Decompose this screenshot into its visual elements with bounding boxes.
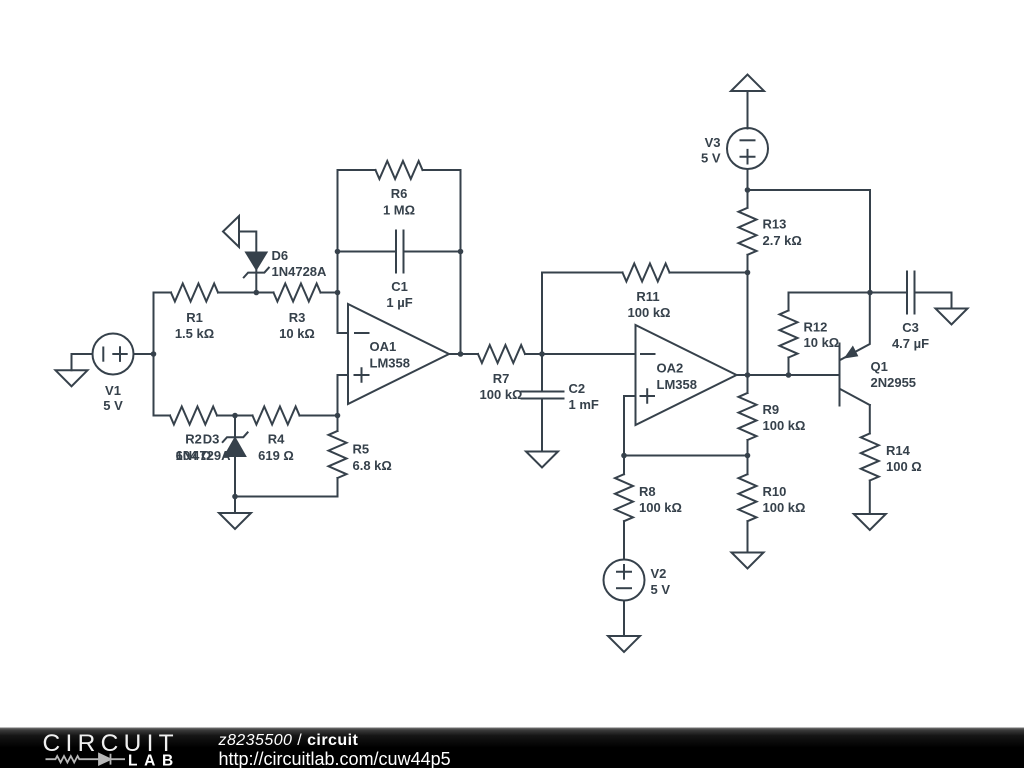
svg-text:Q1: Q1 [871, 359, 888, 374]
wire right rail R13 to OA2 output [747, 273, 749, 376]
node OA1 inverting input junction [335, 290, 341, 296]
capacitor C2 1 mF [522, 354, 599, 452]
svg-text:V1: V1 [105, 383, 121, 398]
ground (below R10) [732, 553, 764, 569]
svg-text:100 kΩ: 100 kΩ [628, 305, 671, 320]
svg-text:2N2955: 2N2955 [871, 375, 917, 390]
svg-text:C1: C1 [391, 279, 408, 294]
svg-text:R5: R5 [353, 442, 370, 457]
wire OA1 feedback right rail [460, 170, 462, 354]
svg-text:C2: C2 [569, 381, 586, 396]
svg-text:V3: V3 [705, 135, 721, 150]
svg-text:6.8 kΩ: 6.8 kΩ [353, 458, 392, 473]
transistor Q1 2N2955 [840, 293, 917, 406]
svg-text:100 kΩ: 100 kΩ [480, 387, 523, 402]
node D3 cathode junction [232, 413, 238, 419]
wire R12 top to C3 [789, 292, 908, 294]
wire R3 leads [256, 292, 337, 294]
wire D3 to ground [234, 497, 236, 514]
wire OA1 feedback left rail [337, 170, 339, 333]
wire flag to V3 [747, 91, 749, 129]
resistor R6 1 M&#937; [376, 161, 423, 179]
node V3 output junction [745, 187, 751, 193]
svg-text:1.5 kΩ: 1.5 kΩ [175, 326, 214, 341]
wire R2 left lead [154, 415, 171, 417]
resistor R5 6.8 k&#937; [329, 416, 347, 497]
wire flag to D6 [239, 232, 256, 253]
node V1 output [151, 351, 157, 357]
wire OA1 + input rail [337, 375, 339, 416]
resistor R8 100 k&#937; [615, 456, 633, 560]
svg-text:R4: R4 [268, 432, 285, 447]
wire R7 to node [525, 353, 542, 355]
svg-text:5 V: 5 V [103, 398, 123, 413]
svg-text:10 kΩ: 10 kΩ [279, 326, 315, 341]
svg-text:http://circuitlab.com/cuw44p5: http://circuitlab.com/cuw44p5 [219, 749, 451, 768]
svg-text:LM358: LM358 [370, 356, 410, 371]
wire R1 to node [218, 292, 256, 294]
wire V1- to ground [72, 354, 93, 370]
node R9/R10 junction [745, 453, 751, 459]
wire V3 branch to Q1 emitter rail [748, 190, 871, 293]
svg-text:10 kΩ: 10 kΩ [804, 335, 840, 350]
wire R4 leads [235, 415, 338, 417]
op-amp OA1 LM358 [338, 304, 450, 404]
svg-text:R8: R8 [639, 484, 656, 499]
footer bar [0, 728, 1024, 768]
wire OA1 output [449, 353, 478, 355]
svg-text:LAB: LAB [128, 752, 180, 768]
resistor R3 10 k&#937; [274, 284, 321, 302]
ground (below D3) [219, 513, 251, 529]
svg-text:R10: R10 [763, 484, 787, 499]
svg-text:R3: R3 [289, 310, 306, 325]
node OA2 output junction [745, 372, 751, 378]
wire R8 node to R10 node [624, 455, 748, 457]
wire R11 left rail [542, 273, 623, 355]
resistor R12 10 k&#937; [780, 293, 798, 376]
ground (below V2) [608, 636, 640, 652]
node R7/C2/R11 junction [539, 351, 545, 357]
ground (V1 negative terminal) [56, 370, 88, 386]
voltage source V3 5 V [701, 128, 768, 169]
wire R6 leads [338, 169, 461, 171]
svg-text:R6: R6 [391, 186, 408, 201]
resistor R11 100 k&#937; [623, 264, 670, 282]
svg-text:100 Ω: 100 Ω [886, 459, 922, 474]
svg-text:1 MΩ: 1 MΩ [383, 203, 415, 218]
resistor R7 100 k&#937; [478, 345, 525, 363]
resistor R9 100 k&#937; [739, 375, 757, 456]
voltage source V2 5 V [604, 560, 671, 601]
power flag V+ (above V3) [731, 75, 764, 92]
resistor R2 604 &#937; [170, 407, 217, 425]
svg-text:1N4728A: 1N4728A [272, 264, 328, 279]
wire R11 right lead [670, 272, 748, 274]
node D3 anode junction [232, 494, 238, 500]
svg-text:C3: C3 [902, 320, 919, 335]
node R8/OA2+ junction [621, 453, 627, 459]
svg-text:R12: R12 [804, 320, 828, 335]
svg-text:100 kΩ: 100 kΩ [763, 418, 806, 433]
svg-text:R14: R14 [886, 443, 911, 458]
wire R1 left lead [154, 292, 172, 294]
node OA1 output junction [458, 351, 464, 357]
svg-text:1 mF: 1 mF [569, 397, 599, 412]
zener diode D6 1N4728A [244, 248, 327, 292]
svg-text:R1: R1 [186, 310, 203, 325]
svg-text:R9: R9 [763, 402, 780, 417]
svg-text:OA1: OA1 [370, 339, 397, 354]
resistor R10 100 k&#937; [739, 456, 757, 553]
resistor R4 619 &#937; [253, 407, 300, 425]
wire left rail [153, 293, 155, 416]
node C1 right junction [458, 249, 464, 255]
power flag (points left, above D6) [223, 216, 239, 247]
svg-text:1 µF: 1 µF [386, 295, 412, 310]
svg-text:D3: D3 [203, 432, 220, 447]
wire R2 to node [217, 415, 235, 417]
zener diode D3 1N4729A [176, 416, 248, 497]
op-amp OA2 LM358 [636, 325, 737, 425]
svg-text:619 Ω: 619 Ω [258, 448, 294, 463]
capacitor C3 4.7 &#181;F [892, 272, 952, 352]
svg-text:100 kΩ: 100 kΩ [763, 500, 806, 515]
resistor R14 100 &#937; [861, 405, 879, 514]
svg-text:5 V: 5 V [651, 582, 671, 597]
wire R5 bottom to D3 bottom [235, 496, 338, 498]
wire OA2 + input rail [624, 396, 636, 456]
svg-text:4.7 µF: 4.7 µF [892, 336, 929, 351]
node R4/R5/OA1+ junction [335, 413, 341, 419]
ground (right of C3) [936, 309, 968, 325]
node R13/R11 junction [745, 270, 751, 276]
wire Q1 base [748, 374, 840, 376]
node C1 left junction [335, 249, 341, 255]
wire V3 to node [747, 169, 749, 190]
wire OA2 inverting input [542, 353, 636, 355]
capacitor C1 1 &#181;F [338, 231, 461, 311]
svg-text:1N4729A: 1N4729A [176, 448, 232, 463]
svg-text:R11: R11 [636, 289, 659, 304]
svg-text:z8235500 / circuit: z8235500 / circuit [218, 732, 359, 749]
wire V2 to ground [623, 601, 625, 637]
node Q1 emitter rail junction [867, 290, 873, 296]
voltage source V1 5 V [93, 334, 134, 414]
svg-text:2.7 kΩ: 2.7 kΩ [763, 233, 802, 248]
CircuitLab logo resistor-diode symbol [46, 754, 126, 765]
node D6 anode junction [253, 290, 259, 296]
svg-text:D6: D6 [272, 248, 289, 263]
svg-text:100 kΩ: 100 kΩ [639, 500, 682, 515]
svg-text:5 V: 5 V [701, 151, 721, 166]
resistor R13 2.7 k&#937; [739, 190, 757, 273]
svg-text:LM358: LM358 [657, 377, 697, 392]
ground (below C2) [526, 452, 558, 468]
wire OA2 output [737, 374, 748, 376]
node R12/base junction [786, 372, 792, 378]
svg-text:OA2: OA2 [657, 361, 684, 376]
ground (below R14) [854, 514, 886, 530]
svg-text:R13: R13 [763, 217, 787, 232]
wire V1+ to node [134, 353, 154, 355]
resistor R1 1.5 k&#937; [171, 284, 218, 302]
svg-text:R2: R2 [185, 432, 202, 447]
svg-text:R7: R7 [493, 371, 510, 386]
svg-text:V2: V2 [651, 566, 667, 581]
